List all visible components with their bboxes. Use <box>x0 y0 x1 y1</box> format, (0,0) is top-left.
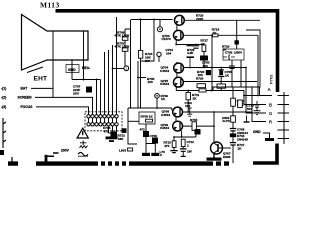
svg-text:472: 472 <box>104 129 109 133</box>
cap C708 <box>230 129 236 131</box>
rail x138 <box>137 61 139 108</box>
transistor Q705 <box>174 63 184 73</box>
wire heater vertical <box>83 60 85 80</box>
svg-text:680: 680 <box>118 137 123 141</box>
svg-text:R: R <box>269 119 272 124</box>
connector CN701 dashed box <box>85 112 122 131</box>
base wire Q704 <box>183 34 258 36</box>
inner box right <box>213 30 260 91</box>
node B2 circle <box>155 94 160 99</box>
emitter network y137 rail <box>181 131 183 137</box>
wire to node 1 <box>113 68 124 70</box>
left clipped pad <box>0 150 4 155</box>
wires into connector from top <box>97 17 117 115</box>
transistor Q708 <box>173 107 183 117</box>
GND label under LHT <box>66 65 79 73</box>
wire A row <box>244 95 272 97</box>
wire horizontal y79.5 <box>72 79 101 81</box>
svg-text:EHT: EHT <box>34 76 48 83</box>
node circle under top wire <box>159 20 161 27</box>
svg-text:R708 1K: R708 1K <box>141 114 154 118</box>
transistor Q706 <box>174 77 184 87</box>
hot chassis symbol <box>80 141 86 145</box>
rail x130.5 <box>130 20 132 109</box>
svg-text:GND: GND <box>253 130 261 134</box>
cluster wires <box>145 137 147 144</box>
resistor R714 on y90.5 <box>199 89 206 92</box>
svg-text:SCREEN: SCREEN <box>18 96 33 100</box>
cap C704 <box>193 46 199 48</box>
svg-text:C709: C709 <box>150 134 158 138</box>
verticals mid right <box>211 35 213 90</box>
svg-text:2KV: 2KV <box>73 91 80 95</box>
ground bus bottom thick dashed <box>8 161 229 165</box>
cap C703 vertical <box>229 60 235 73</box>
resistor C804b <box>231 116 236 122</box>
resistor R804 <box>231 98 236 106</box>
wire y44.5 <box>176 44 204 46</box>
wire B row <box>244 91 266 105</box>
svg-text:103: 103 <box>203 64 208 68</box>
resistor R715 on rail <box>138 50 142 58</box>
svg-text:100: 100 <box>148 80 153 84</box>
right column chain x233 <box>232 87 234 98</box>
gnd small mid <box>246 116 248 122</box>
EHT lead diagonal <box>27 67 43 73</box>
transistor Q703 <box>175 15 185 25</box>
rail x140.5 <box>140 20 142 109</box>
cap C705b <box>122 128 127 133</box>
svg-text:3: 3 <box>160 153 162 157</box>
resistor R725 on y81 <box>217 84 226 88</box>
resistor R714b + cap <box>181 139 185 146</box>
svg-text:1: 1 <box>187 143 189 147</box>
svg-text:EHT: EHT <box>21 87 29 91</box>
node P circle <box>157 52 161 56</box>
wire G row <box>246 68 266 114</box>
pin stubs between rows <box>89 118 117 123</box>
svg-text:M113: M113 <box>40 1 60 10</box>
svg-text:4.6K: 4.6K <box>187 51 194 55</box>
left clipped coil <box>3 118 6 148</box>
svg-text:B: B <box>269 102 272 107</box>
emitter drop Q704 <box>175 40 177 45</box>
wires ch3: Q708 base <box>183 111 253 113</box>
junction dot rail <box>137 77 139 79</box>
cap C705 <box>187 45 194 47</box>
emitter ch2 out <box>176 87 213 91</box>
transistor Q709 <box>173 121 183 131</box>
feedback line y81 (Q706 base) <box>183 81 257 83</box>
connector pins row 1 <box>87 115 118 118</box>
svg-text:1N4148: 1N4148 <box>237 137 248 141</box>
gnd of Q707 <box>213 154 215 158</box>
wire x241 to box <box>240 68 242 88</box>
eht wire vertical <box>52 60 54 97</box>
wires out connector bottom to gnd <box>109 126 117 133</box>
box label R708 <box>128 120 139 122</box>
svg-text:R720: R720 <box>196 77 204 81</box>
wire x154 jog <box>141 20 154 62</box>
connector pins row 2 <box>87 123 118 126</box>
board edge top thick line <box>56 11 278 92</box>
node 1 circle <box>124 66 129 71</box>
transistor Q704 <box>174 30 184 40</box>
svg-text:R715: R715 <box>190 118 198 122</box>
svg-text:L903: L903 <box>119 149 126 153</box>
svg-text:104: 104 <box>166 52 171 56</box>
cap C706 box <box>223 49 244 60</box>
svg-text:1/50V: 1/50V <box>234 51 243 55</box>
svg-text:C4544: C4544 <box>161 113 170 117</box>
cap C713 <box>230 143 236 145</box>
wire to 244 <box>213 90 244 92</box>
connector bracket <box>278 92 290 144</box>
base wire Q707 <box>222 147 231 149</box>
svg-text:220K: 220K <box>196 17 204 21</box>
svg-text:470: 470 <box>164 144 169 148</box>
svg-text:-(3): -(3) <box>1 105 6 109</box>
cap C804 <box>238 100 243 108</box>
svg-text:C4544: C4544 <box>160 69 169 73</box>
warning triangle <box>77 128 88 138</box>
link Q703-Q704 <box>176 25 178 31</box>
hot chassis wave symbol <box>78 152 88 156</box>
flyback inner winding line 2 <box>83 31 85 60</box>
svg-text:C1573: C1573 <box>162 37 171 41</box>
svg-text:1W: 1W <box>187 150 192 154</box>
svg-text:200V: 200V <box>61 149 70 153</box>
svg-text:D966: D966 <box>223 155 231 159</box>
svg-text:G: G <box>269 111 272 116</box>
base wire Q703 <box>184 19 260 21</box>
svg-text:P703: P703 <box>269 74 274 84</box>
svg-text:-(1): -(1) <box>1 87 6 91</box>
resistor R711 <box>186 92 191 99</box>
connector gnd stem <box>112 133 114 137</box>
wire ch2 collector (base) <box>184 67 247 69</box>
svg-text:C4544: C4544 <box>160 126 169 130</box>
svg-text:472: 472 <box>140 127 145 131</box>
link Q705-Q706 <box>176 73 178 78</box>
cap cluster x221 <box>219 69 224 71</box>
transistor Q707 <box>211 142 223 154</box>
eht wire <box>31 87 53 89</box>
wire top y19.5 <box>131 19 173 21</box>
stack wire <box>125 29 131 66</box>
board edge bottom-right thick corner <box>253 144 277 164</box>
svg-text:C4544: C4544 <box>160 82 169 86</box>
corner to C707b blob <box>195 135 197 138</box>
svg-text:C706: C706 <box>225 51 233 55</box>
svg-text:1: 1 <box>125 67 127 71</box>
wire R row <box>252 87 266 122</box>
diode D704 <box>230 133 236 137</box>
focus wire <box>36 107 89 115</box>
svg-text:-(2): -(2) <box>1 96 6 100</box>
screen wire <box>35 97 93 114</box>
wire gnd vertical <box>71 60 73 80</box>
bus left stub <box>11 157 13 163</box>
flyback inner winding line 1 <box>52 31 54 60</box>
Q709 base wire <box>183 125 215 127</box>
wire x258 from ch1 emitter to A <box>257 35 259 95</box>
flyback transformer body <box>22 15 89 71</box>
svg-text:R-PC: R-PC <box>223 119 231 123</box>
svg-text:FOCUS: FOCUS <box>21 105 34 109</box>
wire y108 <box>128 107 172 109</box>
svg-text:2W: 2W <box>145 59 150 63</box>
link Q708-Q709 <box>175 117 177 122</box>
